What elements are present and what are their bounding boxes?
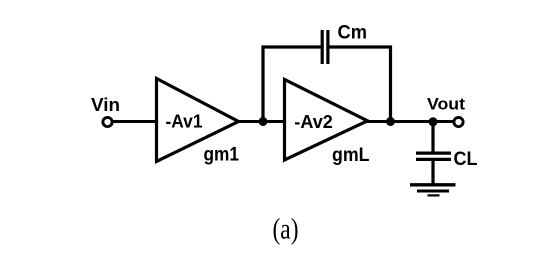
svg-text:Vin: Vin xyxy=(91,94,120,115)
op-amp U1 (gain -Av1) xyxy=(157,79,239,162)
junction node 1 (A1 output) xyxy=(259,117,268,126)
wire Cm right vertical leg xyxy=(389,46,392,122)
wire Vin to amplifier A1 input xyxy=(113,120,157,123)
svg-text:(a): (a) xyxy=(273,213,299,246)
input terminal Vin xyxy=(103,117,112,126)
svg-text:Vout: Vout xyxy=(427,95,465,114)
svg-text:gm1: gm1 xyxy=(204,144,240,165)
wire Cm top right horizontal xyxy=(329,45,392,48)
svg-text:-Av2: -Av2 xyxy=(294,111,333,132)
svg-text:gmL: gmL xyxy=(332,145,370,166)
junction node 3 (CL branch) xyxy=(429,117,438,126)
wire A1 output to A2 input xyxy=(238,120,284,123)
wire CL to ground xyxy=(431,159,434,184)
wire Cm top left horizontal xyxy=(262,45,321,48)
junction node 2 (Cm right leg) xyxy=(386,117,395,126)
wire output node down to CL xyxy=(431,122,434,153)
svg-text:CL: CL xyxy=(454,149,478,170)
svg-text:Cm: Cm xyxy=(338,22,368,44)
capacitor Cm xyxy=(322,30,328,64)
wire A2 output to Vout xyxy=(367,120,454,123)
op-amp U2 (gain -Av2) xyxy=(285,80,368,161)
capacitor CL xyxy=(416,153,451,159)
svg-text:-Av1: -Av1 xyxy=(166,110,203,131)
wire Cm left vertical leg xyxy=(261,46,264,122)
output terminal Vout xyxy=(454,117,463,126)
ground xyxy=(410,185,456,196)
